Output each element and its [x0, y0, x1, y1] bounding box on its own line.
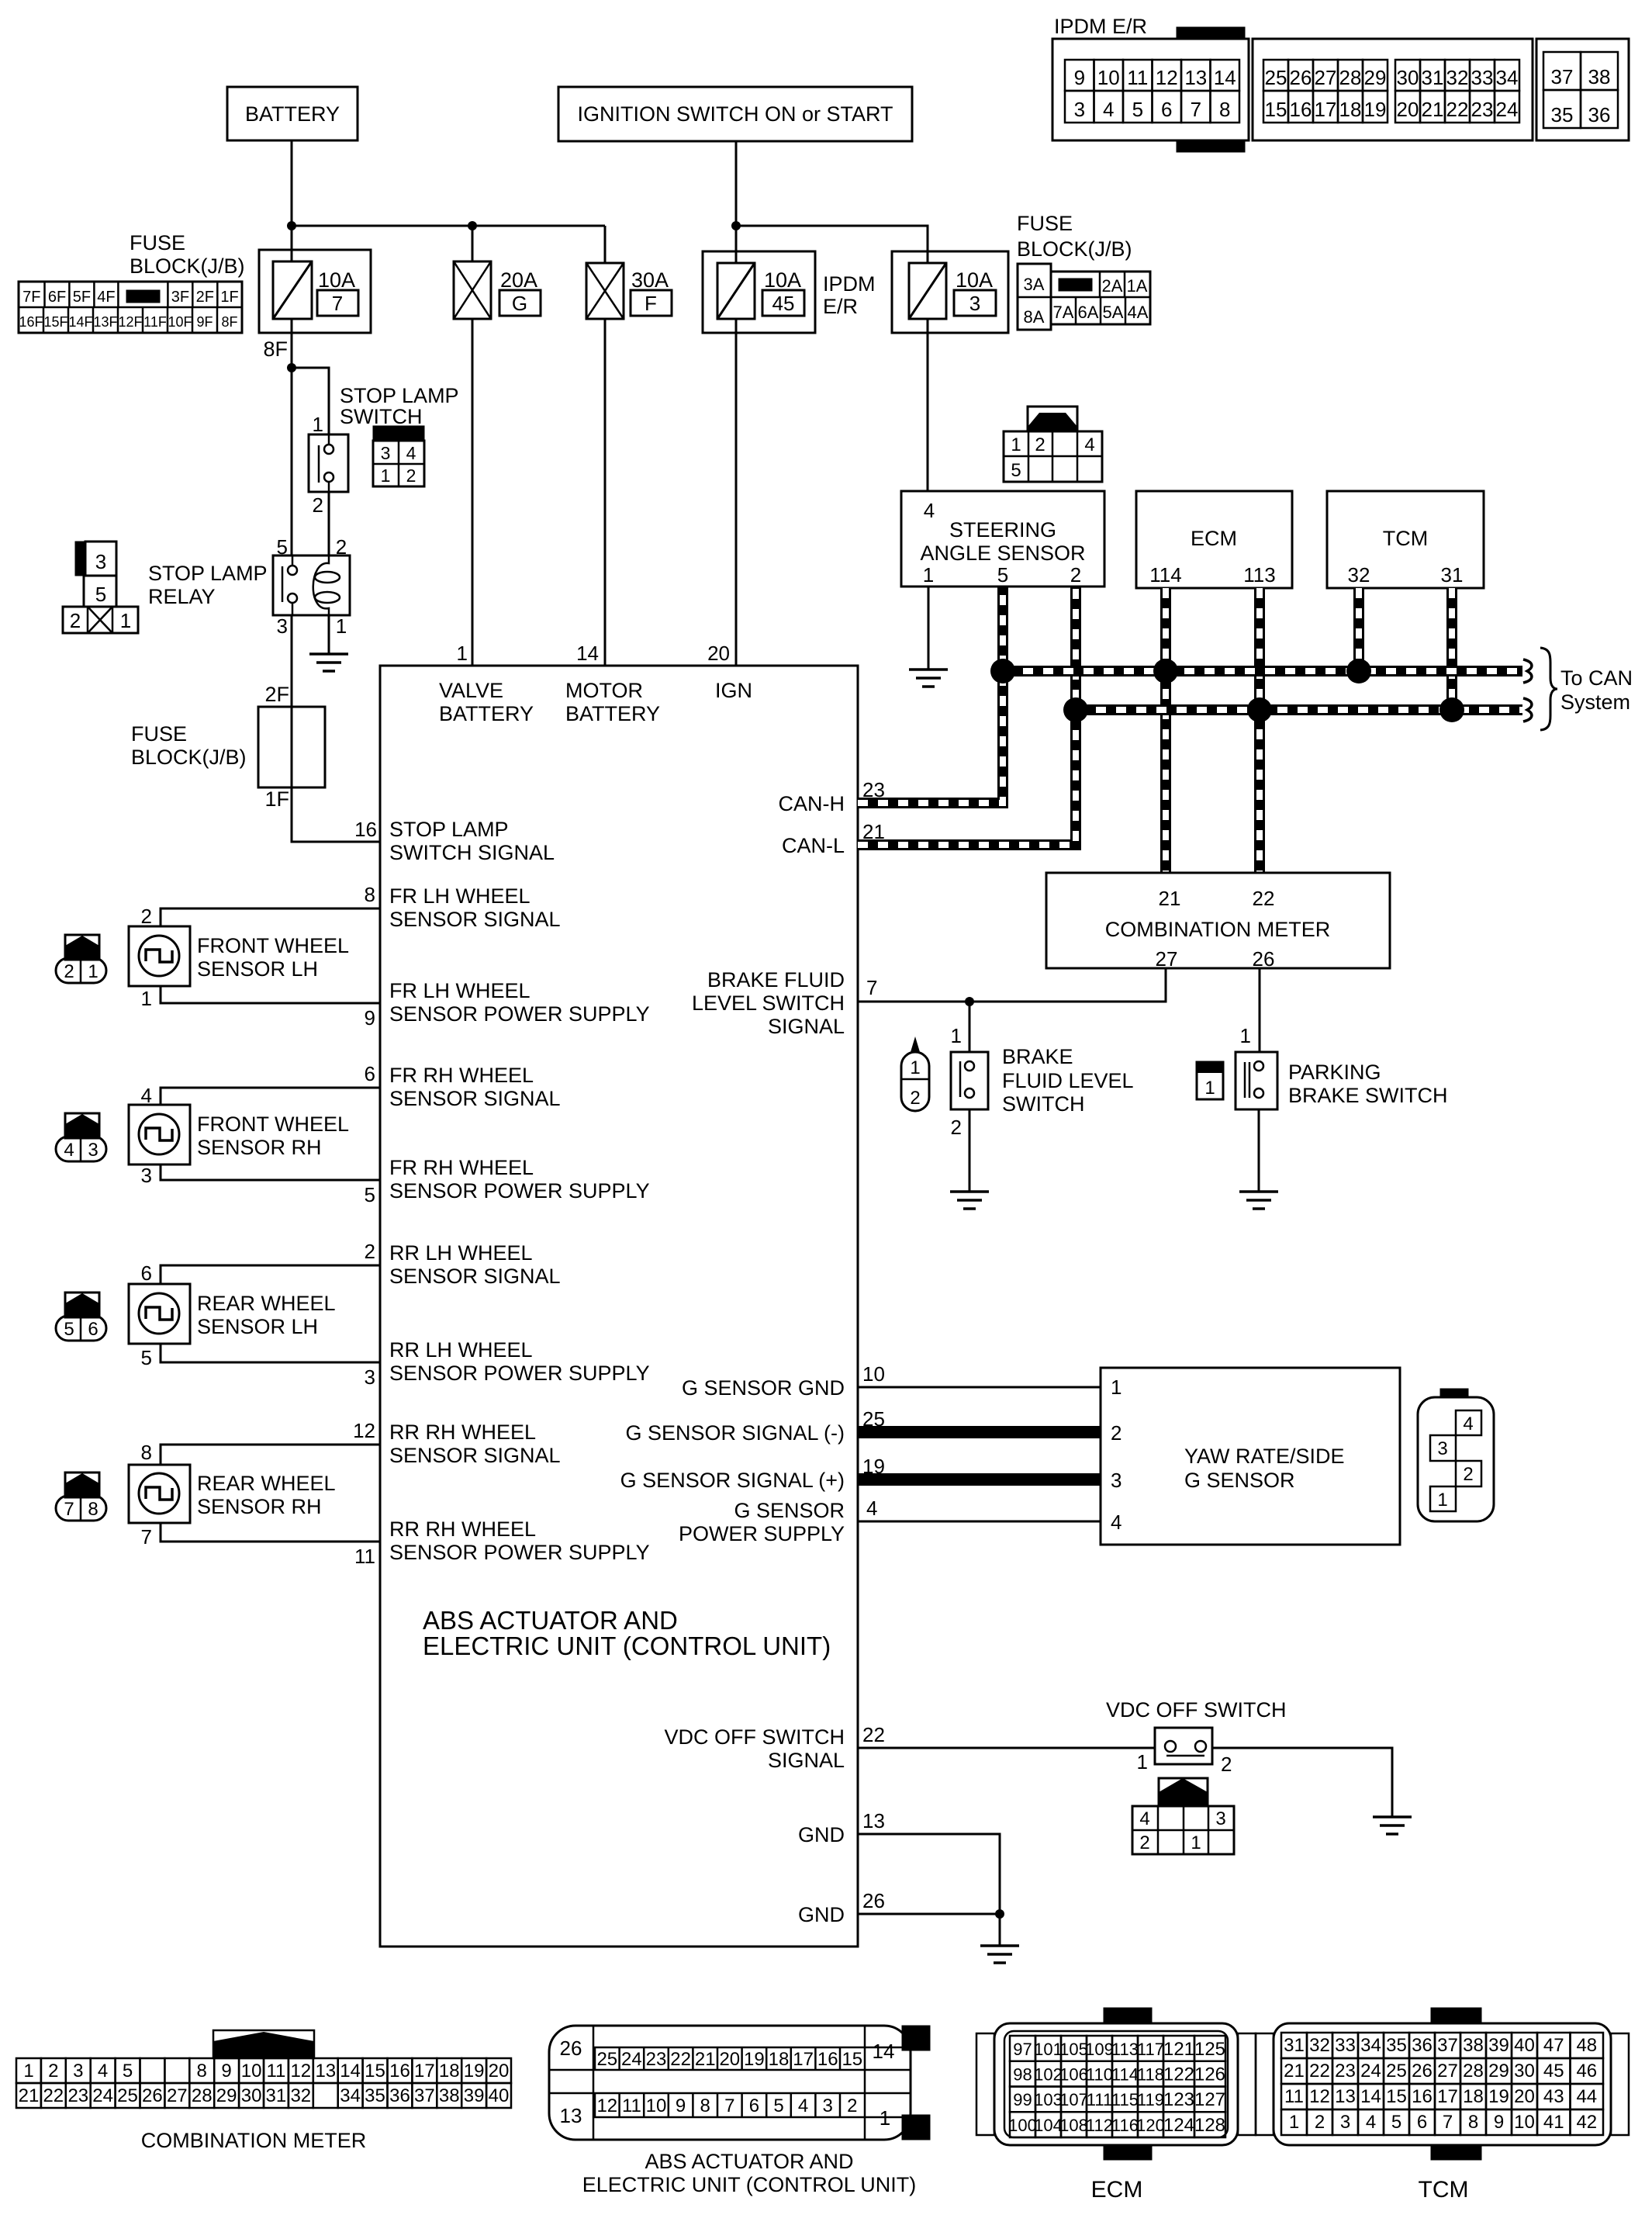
- svg-text:STOP LAMP: STOP LAMP: [389, 818, 509, 841]
- svg-text:4: 4: [924, 499, 935, 522]
- svg-text:10A: 10A: [318, 268, 355, 292]
- svg-text:G SENSOR SIGNAL (-): G SENSOR SIGNAL (-): [625, 1421, 845, 1445]
- TCM box: [1327, 491, 1484, 588]
- svg-text:SENSOR LH: SENSOR LH: [197, 957, 318, 981]
- svg-text:System: System: [1560, 690, 1630, 714]
- steering angle sensor connector: [1028, 407, 1077, 431]
- svg-text:16: 16: [817, 2049, 838, 2070]
- junction CAN-H steering angle sensor: [990, 659, 1015, 683]
- svg-text:2: 2: [406, 465, 416, 486]
- svg-text:37: 37: [1551, 65, 1574, 88]
- svg-text:31: 31: [1422, 66, 1444, 89]
- svg-text:SENSOR SIGNAL: SENSOR SIGNAL: [389, 908, 561, 931]
- svg-text:2: 2: [1315, 2112, 1325, 2133]
- svg-text:1: 1: [88, 961, 98, 982]
- svg-text:3A: 3A: [1024, 275, 1045, 294]
- svg-text:COMBINATION METER: COMBINATION METER: [141, 2129, 367, 2152]
- svg-text:2: 2: [1139, 1832, 1149, 1853]
- fuse block (J/B) connector grid top right: [1018, 264, 1051, 330]
- wire bus to 20A fuse: [472, 226, 474, 261]
- svg-text:7: 7: [1191, 98, 1201, 121]
- svg-text:19: 19: [1488, 2086, 1509, 2107]
- svg-text:30: 30: [1514, 2061, 1535, 2082]
- svg-text:22: 22: [670, 2049, 691, 2070]
- svg-text:BATTERY: BATTERY: [245, 102, 340, 126]
- svg-text:ABS ACTUATOR AND: ABS ACTUATOR AND: [645, 2150, 853, 2173]
- wire REAR WHEEL SENSOR RH signal pin 8 to ABS pin 12: [161, 1445, 380, 1465]
- svg-text:4: 4: [1366, 2112, 1376, 2133]
- ECM box: [1136, 491, 1292, 588]
- svg-text:3: 3: [381, 443, 391, 463]
- wire stop lamp switch to relay pin 2: [328, 492, 330, 555]
- svg-text:122: 122: [1163, 2064, 1194, 2085]
- svg-text:27: 27: [1156, 947, 1178, 971]
- svg-text:26: 26: [862, 1889, 885, 1912]
- svg-text:FUSE: FUSE: [130, 231, 185, 254]
- svg-text:FUSE: FUSE: [131, 722, 187, 746]
- svg-text:126: 126: [1194, 2064, 1225, 2085]
- brace To CAN System: [1540, 648, 1557, 730]
- svg-text:8: 8: [1468, 2112, 1478, 2133]
- svg-text:121: 121: [1163, 2039, 1194, 2060]
- svg-text:BATTERY: BATTERY: [439, 702, 534, 725]
- svg-text:GND: GND: [798, 1823, 845, 1846]
- wire ignition feed to 10A-3 fuse: [736, 226, 928, 263]
- svg-text:FRONT WHEEL: FRONT WHEEL: [197, 934, 349, 957]
- svg-text:F: F: [645, 292, 657, 315]
- svg-text:1F: 1F: [220, 289, 238, 306]
- wire 10A-45 fuse to ABS pin 20: [735, 319, 738, 666]
- svg-text:7A: 7A: [1053, 303, 1074, 322]
- svg-text:G SENSOR: G SENSOR: [1184, 1469, 1295, 1492]
- svg-text:28: 28: [192, 2085, 213, 2106]
- svg-text:26: 26: [1290, 66, 1312, 89]
- svg-text:28: 28: [1463, 2061, 1484, 2082]
- svg-text:12: 12: [596, 2095, 617, 2116]
- svg-text:118: 118: [1137, 2065, 1164, 2085]
- svg-text:STEERING: STEERING: [949, 518, 1056, 542]
- svg-text:8A: 8A: [1024, 307, 1045, 327]
- svg-text:20A: 20A: [500, 268, 537, 292]
- svg-text:SENSOR SIGNAL: SENSOR SIGNAL: [389, 1265, 561, 1288]
- svg-text:44: 44: [1576, 2086, 1597, 2107]
- svg-text:SWITCH SIGNAL: SWITCH SIGNAL: [389, 841, 555, 864]
- wire ECM pin 113 to combination meter pin 22: [1254, 588, 1265, 873]
- svg-text:25: 25: [596, 2049, 617, 2070]
- svg-text:27: 27: [1437, 2061, 1458, 2082]
- svg-text:4: 4: [1139, 1808, 1149, 1829]
- svg-text:10: 10: [862, 1362, 885, 1386]
- svg-text:1: 1: [1011, 434, 1021, 455]
- svg-text:99: 99: [1013, 2090, 1032, 2109]
- svg-text:39: 39: [464, 2085, 485, 2106]
- svg-text:3: 3: [365, 1365, 375, 1389]
- svg-text:13: 13: [1335, 2086, 1356, 2107]
- yaw rate / side G sensor box: [1101, 1368, 1400, 1545]
- svg-text:25: 25: [1265, 66, 1287, 89]
- junction CAN-L steering angle sensor: [1063, 697, 1088, 722]
- svg-text:40: 40: [1514, 2035, 1535, 2056]
- svg-text:7F: 7F: [22, 289, 40, 306]
- svg-text:PARKING: PARKING: [1288, 1061, 1381, 1084]
- svg-text:29: 29: [216, 2085, 237, 2106]
- svg-text:3: 3: [969, 292, 980, 315]
- wire ABS pin 22 to VDC off switch pin 1: [858, 1747, 1155, 1749]
- svg-text:22: 22: [862, 1723, 885, 1746]
- svg-text:5: 5: [1011, 460, 1021, 481]
- svg-text:BLOCK(J/B): BLOCK(J/B): [1017, 237, 1132, 261]
- svg-text:FLUID LEVEL: FLUID LEVEL: [1002, 1069, 1134, 1092]
- svg-text:VDC OFF SWITCH: VDC OFF SWITCH: [665, 1725, 845, 1749]
- wheel sensor FRONT WHEEL SENSOR RH: [129, 1105, 190, 1164]
- wire relay pin 3 to fuse block 2F: [291, 615, 293, 707]
- svg-text:18: 18: [1339, 98, 1362, 121]
- svg-text:9: 9: [1494, 2112, 1504, 2133]
- svg-text:101: 101: [1034, 2040, 1063, 2059]
- svg-text:2: 2: [910, 1088, 920, 1109]
- svg-text:13F: 13F: [93, 314, 117, 330]
- svg-text:5: 5: [141, 1346, 152, 1369]
- svg-text:6: 6: [141, 1261, 152, 1285]
- wire ABS pin 4 to G sensor pin 4: [858, 1521, 1101, 1523]
- svg-text:38: 38: [1463, 2035, 1484, 2056]
- svg-text:1: 1: [313, 413, 323, 436]
- svg-text:26: 26: [142, 2085, 163, 2106]
- ground VDC off switch: [1373, 1817, 1412, 1834]
- svg-text:16F: 16F: [19, 314, 43, 330]
- svg-text:3: 3: [141, 1164, 152, 1187]
- junction CAN-H ECM: [1153, 659, 1178, 683]
- svg-text:28: 28: [1339, 66, 1362, 89]
- svg-text:8: 8: [365, 883, 375, 906]
- junction CAN-L TCM: [1439, 697, 1464, 722]
- svg-text:14: 14: [1360, 2086, 1381, 2107]
- svg-text:3: 3: [1074, 98, 1085, 121]
- wire TCM pin 31 to CAN-L: [1446, 588, 1457, 710]
- IPDM E/R connector block 1: [1177, 27, 1245, 39]
- svg-text:E/R: E/R: [823, 295, 858, 318]
- svg-text:102: 102: [1034, 2065, 1063, 2085]
- junction ignition feed: [731, 221, 741, 230]
- svg-text:123: 123: [1163, 2089, 1194, 2110]
- svg-text:18: 18: [1463, 2086, 1484, 2107]
- svg-text:29: 29: [1488, 2061, 1509, 2082]
- svg-text:SWITCH: SWITCH: [340, 405, 422, 428]
- junction brake fluid level switch: [965, 997, 974, 1006]
- svg-text:24: 24: [92, 2085, 113, 2106]
- svg-text:TCM: TCM: [1383, 527, 1428, 550]
- svg-text:BLOCK(J/B): BLOCK(J/B): [130, 254, 245, 278]
- svg-text:128: 128: [1194, 2115, 1225, 2136]
- svg-text:13: 13: [862, 1809, 885, 1832]
- svg-text:2: 2: [1035, 434, 1045, 455]
- svg-text:9F: 9F: [196, 314, 213, 330]
- svg-text:REAR WHEEL: REAR WHEEL: [197, 1472, 336, 1495]
- svg-text:TCM: TCM: [1419, 2177, 1469, 2203]
- svg-text:1: 1: [23, 2061, 33, 2082]
- svg-text:LEVEL SWITCH: LEVEL SWITCH: [692, 991, 845, 1015]
- connector REAR WHEEL SENSOR LH: [65, 1293, 99, 1317]
- wire steering angle sensor pin 1 to ground: [928, 587, 930, 670]
- svg-text:108: 108: [1059, 2116, 1088, 2135]
- svg-text:6A: 6A: [1078, 303, 1099, 322]
- svg-text:15: 15: [1265, 98, 1287, 121]
- svg-text:22: 22: [1446, 98, 1469, 121]
- svg-text:30A: 30A: [631, 268, 669, 292]
- svg-text:36: 36: [1588, 103, 1611, 126]
- wire to stop lamp switch pin 1: [292, 368, 329, 434]
- svg-text:97: 97: [1013, 2040, 1032, 2059]
- combination meter box: [1046, 873, 1390, 968]
- svg-text:G SENSOR: G SENSOR: [734, 1499, 845, 1522]
- svg-text:7: 7: [724, 2095, 734, 2116]
- svg-text:104: 104: [1034, 2116, 1063, 2135]
- svg-text:2: 2: [313, 493, 323, 517]
- wire through fuse block: [291, 707, 293, 787]
- svg-text:7: 7: [866, 976, 877, 999]
- svg-text:2A: 2A: [1102, 276, 1123, 296]
- svg-text:37: 37: [414, 2085, 435, 2106]
- svg-text:1: 1: [1289, 2112, 1299, 2133]
- svg-text:8F: 8F: [263, 337, 288, 361]
- wire battery to fuse 10A: [291, 140, 293, 261]
- svg-text:17: 17: [1315, 98, 1337, 121]
- ground steering angle sensor: [909, 670, 948, 687]
- svg-text:10A: 10A: [956, 268, 993, 292]
- svg-text:16: 16: [389, 2061, 410, 2082]
- svg-text:23: 23: [1471, 98, 1494, 121]
- svg-text:8: 8: [197, 2061, 207, 2082]
- svg-text:34: 34: [1360, 2035, 1381, 2056]
- svg-text:11: 11: [1284, 2086, 1304, 2107]
- svg-text:1A: 1A: [1127, 276, 1148, 296]
- svg-text:12F: 12F: [118, 314, 142, 330]
- wire relay pin 1 to ground: [328, 615, 330, 654]
- brake fluid level switch: [951, 1052, 988, 1109]
- svg-text:40: 40: [489, 2085, 510, 2106]
- svg-text:24: 24: [621, 2049, 642, 2070]
- svg-text:22: 22: [1253, 887, 1275, 910]
- fuse 10A No.45 in IPDM E/R: [703, 251, 815, 333]
- svg-text:11: 11: [622, 2095, 641, 2116]
- svg-text:15F: 15F: [43, 314, 67, 330]
- svg-text:14: 14: [873, 2040, 895, 2063]
- wire battery feed bus: [292, 225, 605, 227]
- svg-text:4: 4: [1103, 98, 1114, 121]
- svg-text:BRAKE: BRAKE: [1002, 1045, 1073, 1068]
- svg-text:4: 4: [798, 2095, 808, 2116]
- svg-text:23: 23: [646, 2049, 667, 2070]
- svg-text:BRAKE SWITCH: BRAKE SWITCH: [1288, 1084, 1448, 1107]
- svg-text:7: 7: [64, 1499, 74, 1520]
- svg-text:2: 2: [951, 1116, 962, 1139]
- shielded wire ABS pin 19 to G sensor pin 3: [858, 1473, 1101, 1486]
- svg-text:13: 13: [1184, 66, 1207, 89]
- svg-text:14: 14: [576, 642, 599, 665]
- svg-text:42: 42: [1576, 2112, 1597, 2133]
- svg-text:6F: 6F: [48, 289, 66, 306]
- svg-text:4F: 4F: [97, 289, 115, 306]
- wire FRONT WHEEL SENSOR RH power pin 3 to ABS pin 5: [161, 1164, 380, 1180]
- TCM bottom connector: [1431, 2008, 1481, 2023]
- fuse 10A No.3 in IPDM E/R: [892, 251, 1008, 333]
- svg-text:IGN: IGN: [715, 679, 752, 702]
- svg-text:7: 7: [332, 292, 343, 315]
- svg-text:114: 114: [1111, 2065, 1139, 2085]
- svg-text:3: 3: [88, 1140, 98, 1161]
- wire FRONT WHEEL SENSOR LH signal pin 2 to ABS pin 8: [161, 908, 380, 926]
- wire REAR WHEEL SENSOR LH signal pin 6 to ABS pin 2: [161, 1265, 380, 1284]
- svg-text:SENSOR POWER SUPPLY: SENSOR POWER SUPPLY: [389, 1002, 650, 1026]
- svg-text:19: 19: [464, 2061, 485, 2082]
- svg-text:MOTOR: MOTOR: [565, 679, 643, 702]
- svg-text:27: 27: [167, 2085, 188, 2106]
- svg-text:113: 113: [1111, 2040, 1139, 2059]
- svg-text:13: 13: [315, 2061, 336, 2082]
- svg-text:106: 106: [1059, 2065, 1088, 2085]
- svg-text:2: 2: [1070, 563, 1081, 587]
- svg-text:18: 18: [769, 2049, 790, 2070]
- svg-text:30: 30: [241, 2085, 262, 2106]
- wire 20A fuse to ABS pin 1: [472, 319, 474, 666]
- svg-text:26: 26: [560, 2037, 582, 2060]
- svg-text:FR RH WHEEL: FR RH WHEEL: [389, 1064, 534, 1087]
- svg-text:2: 2: [365, 1240, 375, 1263]
- svg-text:5: 5: [773, 2095, 783, 2116]
- svg-text:10A: 10A: [764, 268, 801, 292]
- CAN-L trunk to CAN system: [1076, 704, 1522, 715]
- wire FRONT WHEEL SENSOR RH signal pin 4 to ABS pin 6: [161, 1088, 380, 1105]
- parking brake switch: [1236, 1052, 1277, 1109]
- svg-text:38: 38: [1588, 65, 1611, 88]
- ABS actuator bottom connector: [902, 2026, 930, 2050]
- wire TCM pin 32 to CAN-H: [1353, 588, 1364, 671]
- svg-text:30: 30: [1397, 66, 1419, 89]
- svg-text:7: 7: [1443, 2112, 1453, 2133]
- svg-text:14: 14: [1214, 66, 1236, 89]
- svg-text:RELAY: RELAY: [148, 585, 216, 608]
- svg-text:2: 2: [847, 2095, 857, 2116]
- svg-text:18: 18: [439, 2061, 460, 2082]
- svg-text:2: 2: [64, 961, 74, 982]
- svg-text:3: 3: [1437, 1438, 1447, 1459]
- svg-text:107: 107: [1059, 2090, 1088, 2109]
- svg-text:109: 109: [1085, 2040, 1114, 2059]
- svg-text:3: 3: [73, 2061, 83, 2082]
- svg-text:12: 12: [353, 1419, 375, 1442]
- svg-text:48: 48: [1576, 2035, 1597, 2056]
- wire 1F to ABS pin 16: [292, 787, 380, 842]
- svg-text:34: 34: [340, 2085, 361, 2106]
- svg-text:SENSOR POWER SUPPLY: SENSOR POWER SUPPLY: [389, 1362, 650, 1385]
- svg-text:ELECTRIC UNIT (CONTROL UNIT): ELECTRIC UNIT (CONTROL UNIT): [423, 1632, 831, 1660]
- CAN-H trunk to CAN system: [1003, 666, 1522, 677]
- svg-text:POWER SUPPLY: POWER SUPPLY: [679, 1522, 845, 1545]
- svg-text:RR RH WHEEL: RR RH WHEEL: [389, 1517, 536, 1541]
- wire parking brake switch to ground: [1258, 1109, 1260, 1192]
- svg-text:43: 43: [1543, 2086, 1564, 2107]
- svg-text:G: G: [512, 292, 527, 315]
- svg-text:8: 8: [88, 1499, 98, 1520]
- svg-text:2: 2: [48, 2061, 58, 2082]
- svg-text:32: 32: [1348, 563, 1370, 587]
- svg-text:16: 16: [1412, 2086, 1433, 2107]
- connector FRONT WHEEL SENSOR LH: [65, 935, 99, 960]
- svg-text:39: 39: [1488, 2035, 1509, 2056]
- svg-text:2: 2: [70, 609, 81, 632]
- svg-text:1: 1: [951, 1024, 962, 1047]
- VDC off switch: [1155, 1728, 1212, 1764]
- svg-text:1: 1: [923, 563, 934, 587]
- svg-text:14: 14: [340, 2061, 361, 2082]
- svg-text:12: 12: [290, 2061, 311, 2082]
- ground stop lamp relay: [309, 654, 348, 671]
- svg-text:3: 3: [95, 550, 106, 573]
- wire REAR WHEEL SENSOR LH power pin 5 to ABS pin 3: [161, 1344, 380, 1362]
- svg-text:116: 116: [1111, 2116, 1139, 2135]
- svg-text:1: 1: [1437, 1490, 1447, 1511]
- svg-text:27: 27: [1315, 66, 1337, 89]
- fusible link 20A G: [454, 261, 491, 319]
- svg-text:25: 25: [117, 2085, 138, 2106]
- fuse block (J/B) 2F-1F box: [258, 707, 325, 787]
- IPDM E/R connector block 2: [1253, 39, 1533, 140]
- junction to stop lamp switch: [287, 363, 296, 372]
- svg-text:SIGNAL: SIGNAL: [768, 1749, 845, 1772]
- svg-text:103: 103: [1034, 2090, 1063, 2109]
- svg-text:IGNITION SWITCH ON or START: IGNITION SWITCH ON or START: [577, 102, 893, 126]
- svg-text:21: 21: [1422, 98, 1444, 121]
- svg-text:34: 34: [1496, 66, 1519, 89]
- svg-text:32: 32: [1446, 66, 1469, 89]
- svg-text:SWITCH: SWITCH: [1002, 1092, 1084, 1116]
- svg-text:5: 5: [997, 563, 1008, 587]
- svg-text:16: 16: [1290, 98, 1312, 121]
- svg-text:8: 8: [1219, 98, 1230, 121]
- svg-text:1: 1: [1191, 1832, 1201, 1853]
- svg-text:110: 110: [1086, 2065, 1113, 2085]
- svg-text:VALVE: VALVE: [439, 679, 503, 702]
- svg-text:SENSOR POWER SUPPLY: SENSOR POWER SUPPLY: [389, 1541, 650, 1564]
- svg-text:SIGNAL: SIGNAL: [768, 1015, 845, 1038]
- svg-text:20: 20: [1514, 2086, 1535, 2107]
- svg-text:2F: 2F: [196, 289, 214, 306]
- svg-text:3: 3: [823, 2095, 833, 2116]
- svg-text:2: 2: [1221, 1753, 1232, 1776]
- svg-text:10: 10: [1514, 2112, 1535, 2133]
- svg-text:FR LH WHEEL: FR LH WHEEL: [389, 979, 531, 1002]
- svg-text:SENSOR SIGNAL: SENSOR SIGNAL: [389, 1087, 561, 1110]
- wire 30A fuse to ABS pin 14: [604, 319, 607, 666]
- wire CAN-H from ABS pin 23 to steering angle sensor pin 5: [858, 587, 1003, 803]
- svg-text:9: 9: [1074, 66, 1085, 89]
- svg-text:REAR WHEEL: REAR WHEEL: [197, 1292, 336, 1315]
- svg-text:25: 25: [1386, 2061, 1407, 2082]
- svg-text:115: 115: [1111, 2090, 1139, 2109]
- svg-text:1: 1: [1240, 1024, 1251, 1047]
- svg-text:G SENSOR SIGNAL (+): G SENSOR SIGNAL (+): [620, 1469, 845, 1492]
- svg-text:11F: 11F: [143, 314, 167, 330]
- svg-text:21: 21: [1159, 887, 1181, 910]
- svg-text:100: 100: [1008, 2116, 1037, 2135]
- svg-text:9: 9: [221, 2061, 231, 2082]
- svg-text:RR LH WHEEL: RR LH WHEEL: [389, 1338, 533, 1362]
- stop lamp switch connector: [373, 426, 424, 441]
- combination meter bottom connector: [213, 2030, 314, 2058]
- svg-text:VDC OFF SWITCH: VDC OFF SWITCH: [1106, 1698, 1286, 1722]
- svg-text:22: 22: [1309, 2061, 1330, 2082]
- wire ABS pin 13 to ground: [858, 1834, 1000, 1946]
